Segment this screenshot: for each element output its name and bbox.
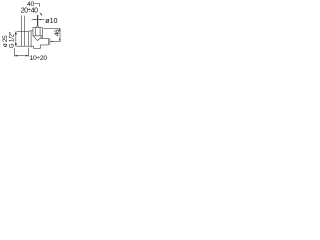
horizontal pipe top edge xyxy=(17,31,29,33)
dim 46 arrow bottom xyxy=(59,39,61,42)
nut facet line right xyxy=(39,28,41,36)
svg-text:46: 46 xyxy=(54,29,61,36)
leader line for dimension 20÷40 xyxy=(40,13,42,16)
svg-text:10÷20: 10÷20 xyxy=(30,55,48,62)
cone seat left leg xyxy=(33,36,38,41)
leader bracket for dimension 40 xyxy=(34,3,39,6)
pipe flare into nut, right xyxy=(38,26,39,28)
wall plate line right xyxy=(24,16,26,47)
outlet end cap inner xyxy=(48,38,50,45)
ø10 arrow right xyxy=(39,19,41,20)
svg-text:G 1/2″: G 1/2″ xyxy=(9,31,16,48)
ø25 arrow top xyxy=(15,32,17,35)
cone seat right leg xyxy=(38,36,43,41)
outlet end cap outer xyxy=(49,38,51,45)
nut facet line left xyxy=(34,28,36,36)
body bottom outline with step xyxy=(29,45,49,48)
dim 10÷20 arrow left xyxy=(15,55,18,57)
dim 10÷20 arrow right xyxy=(26,55,29,57)
dim 10÷20 dimension line xyxy=(15,55,29,57)
inlet pipe (vertical, ø10) xyxy=(37,15,39,26)
20÷40 leader arrowhead xyxy=(40,14,42,16)
dim 46 bottom extension line xyxy=(50,40,60,42)
outlet top edge xyxy=(40,37,49,39)
dim 10÷20 right extension line xyxy=(28,48,30,57)
pipe flare into nut, left xyxy=(36,26,37,28)
horizontal pipe bottom edge xyxy=(16,45,28,47)
body top shoulder xyxy=(29,30,34,33)
ø10 dimension leader line xyxy=(32,19,45,21)
svg-text:ø10: ø10 xyxy=(45,16,57,25)
body side below nut xyxy=(41,36,43,39)
dim 46 top extension line xyxy=(44,27,61,29)
body left wall xyxy=(28,31,30,46)
ø10 arrow left xyxy=(35,19,37,20)
dim 46 arrow top xyxy=(59,29,61,32)
compression nut body xyxy=(33,28,42,36)
inlet pipe top cap xyxy=(37,15,39,17)
dim 46 bottom leader arrow xyxy=(50,41,53,42)
svg-text:20÷40: 20÷40 xyxy=(21,8,38,15)
wall plate line left xyxy=(21,16,23,47)
dim 10÷20 left extension line xyxy=(14,48,16,57)
ø25 dimension line at pipe end xyxy=(15,32,17,47)
dim 46 vertical dimension line xyxy=(59,28,61,41)
ø25 arrow bottom xyxy=(15,43,17,46)
body right wall xyxy=(30,31,32,47)
